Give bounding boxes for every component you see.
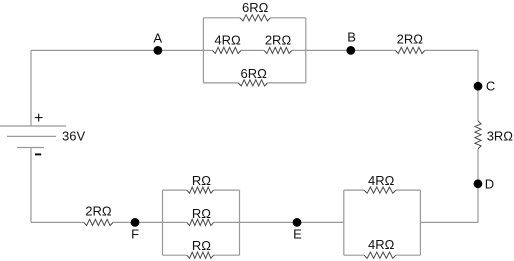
svg-text:RΩ: RΩ (192, 173, 211, 188)
resistor 2R-bottomleft zigzag (84, 219, 113, 225)
svg-text:C: C (486, 79, 495, 94)
resistor 4R label (214, 33, 241, 48)
4R box top branch wires (344, 189, 421, 191)
top box bottom branch wires (203, 82, 305, 84)
svg-text:6RΩ: 6RΩ (242, 0, 269, 15)
node D dot (474, 179, 483, 188)
svg-text:A: A (153, 31, 162, 46)
wire bottom far-left segment (resistor to corner) (31, 221, 84, 223)
node B dot (346, 46, 355, 55)
node E label (293, 226, 302, 241)
wire top horizontal segment (box to corner, through node B) (306, 49, 478, 51)
svg-text:4RΩ: 4RΩ (368, 237, 395, 252)
resistor R-bottom zigzag (187, 252, 214, 258)
resistor 3R zigzag (475, 121, 481, 149)
svg-text:2RΩ: 2RΩ (397, 32, 424, 47)
svg-text:4RΩ: 4RΩ (368, 173, 395, 188)
battery V1 36V plate long (+) (0, 125, 66, 127)
svg-text:36V: 36V (62, 129, 85, 144)
top box left vertical wire (202, 18, 204, 83)
resistor 4R zigzag (212, 47, 241, 53)
wire bottom middle segment (4R box to 3R box, through node E) (240, 221, 344, 223)
battery V1 short plate (-) (17, 147, 44, 149)
top box right vertical wire (305, 18, 307, 83)
wire left vertical lower (battery - to bottom corner) (30, 148, 32, 223)
resistor 4R-top zigzag (364, 187, 396, 193)
svg-text:RΩ: RΩ (192, 238, 211, 253)
resistor 2R-bottomleft label (85, 204, 112, 219)
svg-text:E: E (293, 226, 302, 241)
3R box bottom branch wires (163, 254, 240, 256)
node E dot (293, 218, 302, 227)
3R box top branch wires (163, 189, 240, 191)
resistor R-mid label (192, 206, 211, 221)
node B label (347, 30, 356, 45)
wire left vertical upper (top corner to battery +) (30, 50, 32, 126)
4R box right vertical wire (419, 190, 421, 255)
3R box right vertical wire (239, 190, 241, 255)
svg-text:4RΩ: 4RΩ (214, 33, 241, 48)
battery - terminal label (35, 153, 41, 155)
resistor 3R label (487, 129, 514, 144)
svg-text:2RΩ: 2RΩ (265, 33, 292, 48)
resistor 6R-bottom label (241, 66, 268, 81)
resistor 4R-bottom label (368, 237, 395, 252)
svg-text:3RΩ: 3RΩ (487, 129, 514, 144)
4R box left vertical wire (343, 190, 345, 255)
node F label (131, 226, 139, 241)
wire bottom right segment (corner to 4R box) (420, 221, 478, 223)
4R box bottom branch wires (344, 254, 421, 256)
resistor 6R-top label (242, 0, 269, 15)
node A dot (154, 46, 163, 55)
node C label (486, 79, 495, 94)
resistor 2R-mid zigzag (264, 47, 292, 53)
node C dot (474, 82, 483, 91)
resistor 4R-bottom zigzag (364, 252, 396, 258)
resistor 6R-top zigzag (240, 15, 270, 21)
svg-text:D: D (485, 177, 494, 192)
svg-text:6RΩ: 6RΩ (241, 66, 268, 81)
wire top-left horizontal segment (battery to box) (31, 49, 203, 51)
svg-text:F: F (131, 226, 139, 241)
node A label (153, 31, 162, 46)
svg-text:RΩ: RΩ (192, 206, 211, 221)
battery + terminal label (34, 110, 43, 127)
resistor R-top zigzag (187, 187, 214, 193)
wire bottom left segment (3R box to resistor, through node F) (113, 221, 163, 223)
resistor 4R-top label (368, 173, 395, 188)
resistor 2R-topright zigzag (395, 47, 424, 53)
resistor R-bottom label (192, 238, 211, 253)
svg-text:B: B (347, 30, 356, 45)
resistor R-top label (192, 173, 211, 188)
resistor 2R-topright label (397, 32, 424, 47)
svg-text:+: + (34, 110, 43, 127)
3R box left vertical wire (162, 190, 164, 255)
top box middle branch wires (203, 49, 305, 51)
battery V1 middle plate (7, 135, 56, 137)
resistor 2R-mid label (265, 33, 292, 48)
resistor 6R-bottom zigzag (238, 80, 267, 86)
wire right vertical lower (3R resistor to bottom corner) (477, 149, 479, 223)
node F dot (131, 218, 140, 227)
svg-text:2RΩ: 2RΩ (85, 204, 112, 219)
top box top branch wires (203, 17, 305, 19)
3R box middle branch wires (163, 221, 240, 223)
resistor R-mid zigzag (187, 219, 214, 225)
wire right vertical upper (corner to 3R resistor) (477, 50, 479, 121)
node D label (485, 177, 494, 192)
battery value label 36V (62, 129, 85, 144)
